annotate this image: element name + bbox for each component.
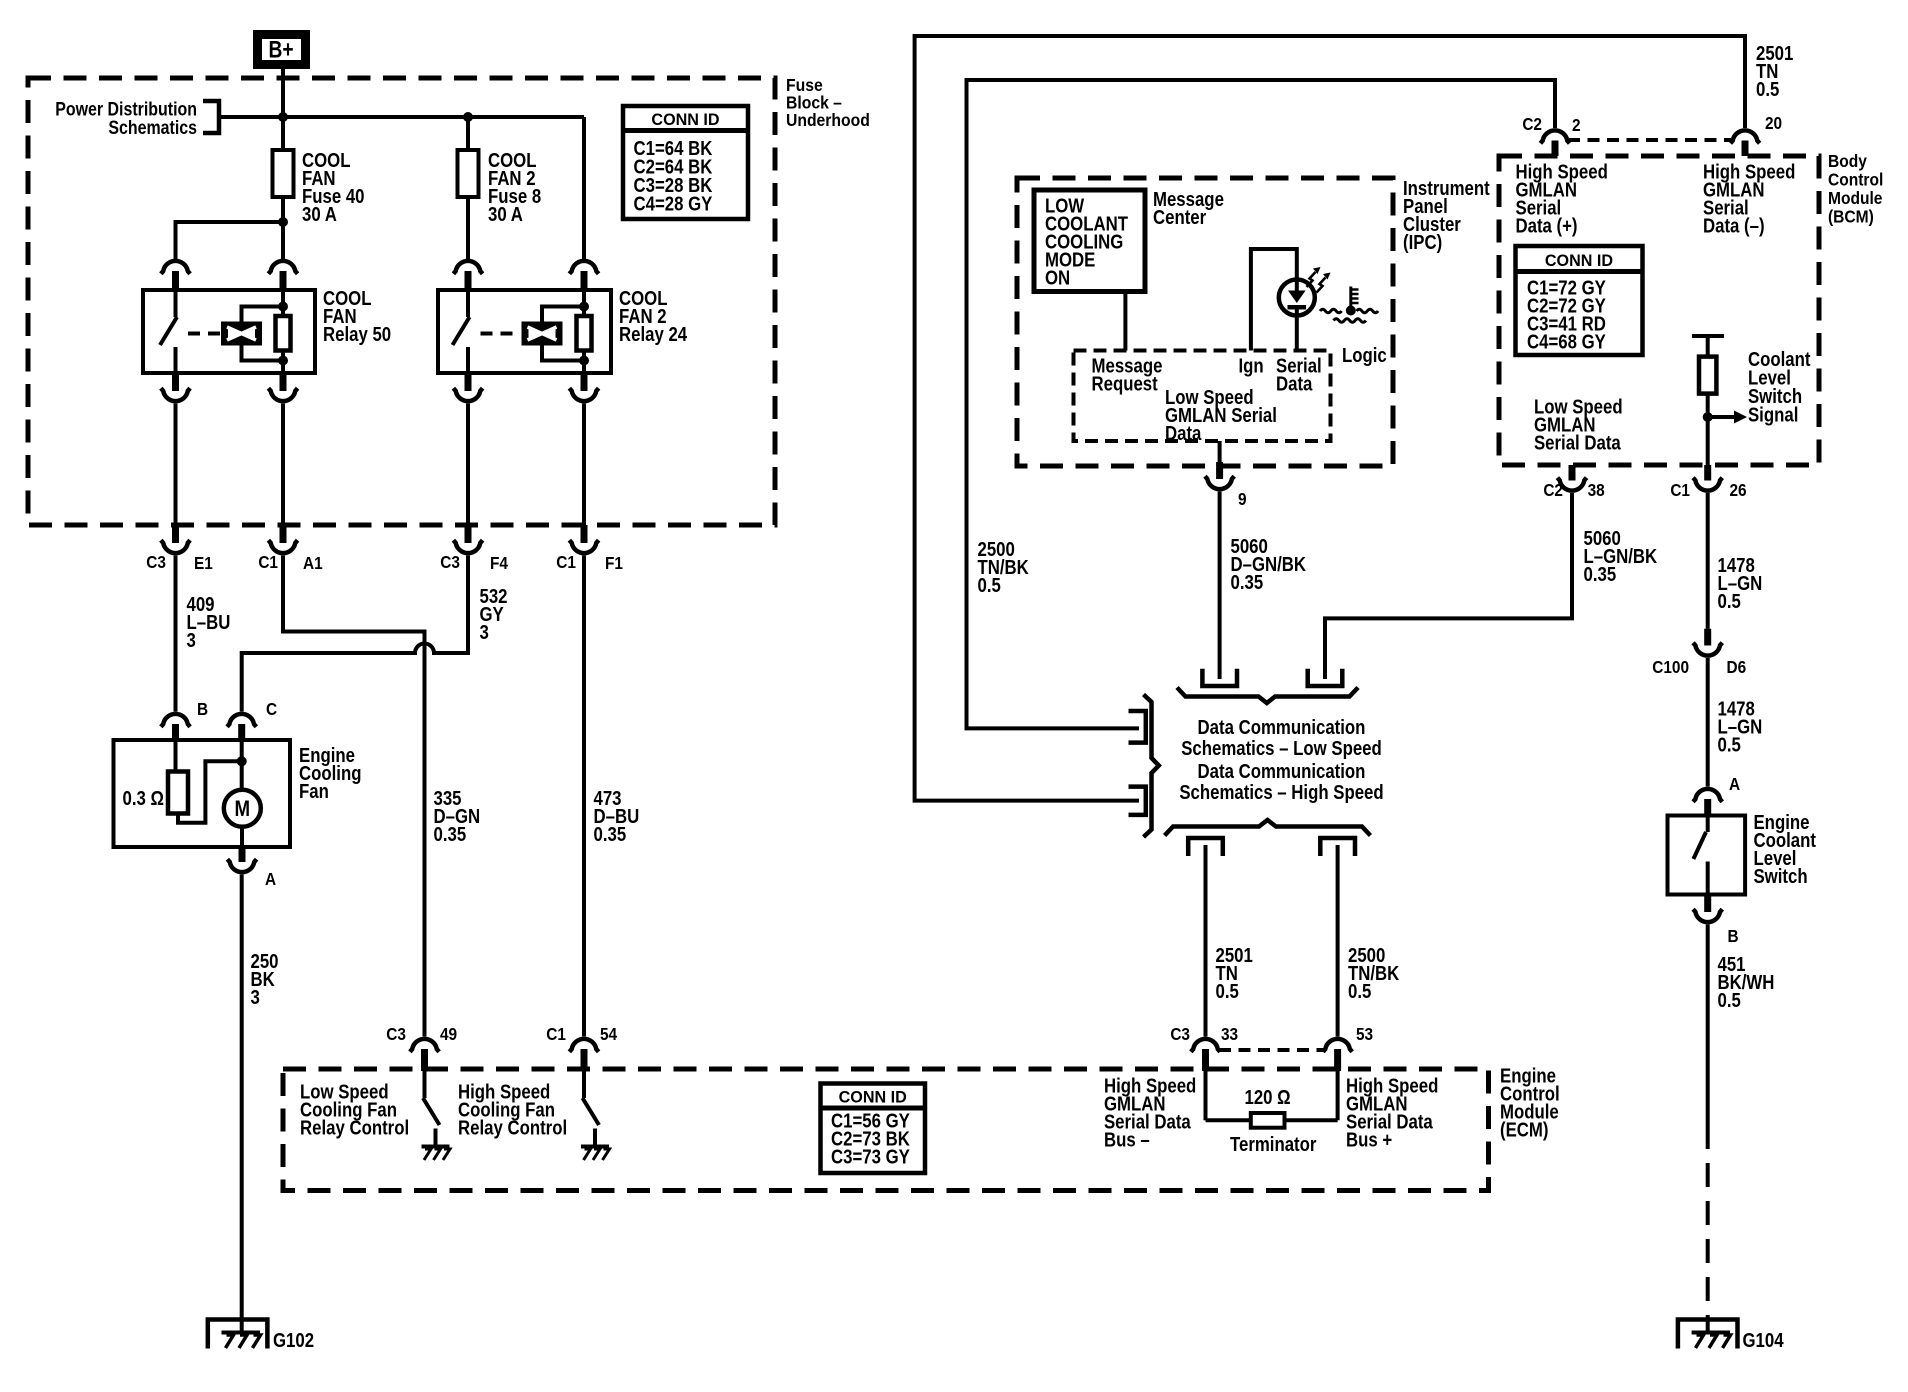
indicator lamp [1279,280,1315,351]
svg-text:0.5: 0.5 [1718,989,1741,1012]
svg-text:33: 33 [1221,1025,1238,1044]
svg-text:Data: Data [1276,372,1313,395]
wire power distribution to bus [219,115,283,119]
svg-text:0.5: 0.5 [1756,78,1779,101]
svg-text:E1: E1 [194,554,213,573]
label Fuse Block Underhood [786,75,870,130]
IPC dashed box [1017,178,1393,466]
label low speed gmlan serial data BCM [1534,395,1623,454]
relay 50 top connectors [161,261,298,290]
svg-text:C3: C3 [1170,1025,1190,1044]
svg-text:C: C [266,700,277,719]
svg-text:Bus +: Bus + [1346,1128,1392,1151]
svg-text:Module: Module [1828,188,1882,208]
label engine coolant level switch [1754,811,1816,888]
svg-text:B+: B+ [268,35,293,63]
relay COOL FAN 2 Relay 24 [438,197,688,401]
svg-text:Underhood: Underhood [786,110,870,130]
wire bus down to fuse 8 [466,117,470,152]
wire 2501 TN 0.5 to ECM 33 [1206,845,1253,1037]
label Body Control Module BCM [1828,151,1883,227]
svg-text:CONN ID: CONN ID [1545,251,1613,270]
wire bus down to relay 24 coil pin [582,117,586,259]
svg-text:3: 3 [186,629,195,652]
svg-text:Switch: Switch [1754,865,1808,888]
label data communication schematics high speed [1179,760,1383,804]
ground G104 [1678,1320,1784,1352]
wire 250 BK 3 to ground [242,875,279,1333]
label high speed gmlan serial data bus plus [1346,1074,1438,1151]
svg-text:C4=68 GY: C4=68 GY [1527,330,1606,353]
engine coolant level switch box [1668,816,1746,895]
connector IPC pin 9 [1205,441,1247,509]
wire 5060 L-GN/BK 0.35 from 38 to bus [1325,493,1658,679]
label coolant level switch signal [1748,348,1810,426]
svg-text:Fan: Fan [299,780,329,803]
low speed relay control driver [300,1071,440,1146]
svg-text:0.35: 0.35 [1231,571,1264,594]
wire 409 L-BU 3 [176,556,231,712]
svg-text:C3: C3 [440,553,460,572]
svg-text:ON: ON [1045,266,1070,289]
svg-text:Serial Data: Serial Data [1534,431,1621,454]
wire Ign loop [1251,249,1297,351]
svg-text:F4: F4 [490,554,509,573]
left bus plugs and brace [1129,695,1159,838]
svg-text:0.5: 0.5 [1718,590,1741,613]
svg-text:Data (–): Data (–) [1703,214,1765,237]
svg-text:C100: C100 [1652,658,1689,677]
svg-text:Schematics – High Speed: Schematics – High Speed [1179,781,1383,804]
wire dashed to G104 [1706,1149,1710,1331]
connector 53 [1323,1025,1373,1071]
svg-text:Bus –: Bus – [1104,1128,1150,1151]
wire relay 24 coil out to F1 [582,404,586,526]
connector fan pin C [227,700,277,741]
svg-text:0.35: 0.35 [594,823,627,846]
wire resistor to motor feed [178,761,242,823]
svg-text:F1: F1 [605,554,623,573]
fuse block dashed box [28,78,775,525]
wire relay 50 switch out to E1 [174,404,178,526]
node junction dot fan internal [237,756,247,766]
svg-text:54: 54 [600,1025,618,1044]
svg-text:B: B [1728,927,1739,946]
connector C1 F1 [556,525,623,573]
wire 5060 D-GN/BK 0.35 [1220,492,1307,680]
BCM dashed box [1499,156,1819,465]
svg-text:D6: D6 [1726,658,1746,677]
lamp light arrows [1307,267,1331,293]
high speed relay control driver [458,1071,599,1146]
svg-text:0.35: 0.35 [1584,563,1617,586]
svg-text:(IPC): (IPC) [1403,231,1442,254]
wire fuse 40 to relay 50 [281,197,285,259]
wire 473 D-BU 0.35 from F1 to ECM 54 [584,556,639,1037]
svg-text:A1: A1 [303,554,323,573]
data communication bus high speed plugs [1165,820,1371,856]
dashed connector face BCM [1568,138,1732,142]
svg-text:A: A [1729,775,1740,794]
svg-text:Relay Control: Relay Control [458,1116,567,1139]
wire 451 BK/WH 0.5 [1708,925,1775,1150]
wire B+ down to fuse 40 [281,69,285,152]
wire 2501 TN 0.5 top run [915,36,1794,801]
ground internal ECM low speed [422,1147,451,1161]
svg-text:Request: Request [1092,372,1158,395]
svg-text:(ECM): (ECM) [1500,1118,1548,1141]
svg-text:38: 38 [1588,481,1605,500]
svg-text:C2: C2 [1522,115,1542,134]
svg-text:C3: C3 [386,1025,406,1044]
battery feed B+ [258,35,306,65]
wire relay 50 coil out to A1 [281,404,285,526]
svg-text:0.5: 0.5 [1215,980,1238,1003]
svg-text:Control: Control [1828,170,1883,190]
connector C3 33 [1170,1025,1238,1071]
svg-text:0.3 Ω: 0.3 Ω [123,787,165,810]
svg-text:CONN ID: CONN ID [651,110,719,129]
svg-text:C3=73 GY: C3=73 GY [831,1145,910,1168]
svg-text:0.5: 0.5 [1718,733,1741,756]
wire 532 GY 3 from F4 to fan C with hop [242,556,508,712]
svg-text:C2: C2 [1543,481,1563,500]
conn id table BCM [1516,246,1643,355]
svg-text:2: 2 [1572,116,1581,135]
svg-text:Ign: Ign [1238,354,1263,377]
connector C3 49 [386,1025,457,1071]
wire message center to logic [1123,292,1127,351]
wire 1478 L-GN 0.5 lower [1708,658,1763,787]
svg-text:49: 49 [440,1025,457,1044]
conn id table ECM [821,1084,926,1174]
svg-text:C1: C1 [556,553,576,572]
ground G102 [208,1320,314,1352]
svg-text:0.35: 0.35 [434,823,467,846]
svg-text:Data Communication: Data Communication [1198,716,1366,739]
logic dashed box [1074,351,1331,442]
node junction dot fuse 8 tap [463,112,473,122]
fuse COOL FAN 2 Fuse 8 30 A [458,149,542,226]
wire 2500 TN/BK 0.5 to ECM 53 [1338,845,1400,1037]
dashed connector face ECM [1219,1048,1324,1052]
svg-text:9: 9 [1238,490,1247,509]
label high speed gmlan serial data bus minus [1104,1074,1196,1151]
label high speed gmlan serial data plus [1516,160,1608,237]
ECM dashed box [283,1069,1489,1191]
node junction dot relay 50 branch [278,217,288,227]
svg-text:Relay 50: Relay 50 [323,323,391,346]
svg-text:Schematics: Schematics [108,117,197,139]
connector C1 54 [546,1025,618,1071]
connector 20 [1730,114,1782,156]
ground internal ECM high speed [581,1147,610,1161]
svg-text:Relay 24: Relay 24 [619,323,688,346]
svg-text:30 A: 30 A [488,203,523,226]
wire 1478 L-GN 0.5 upper [1708,493,1763,629]
svg-text:53: 53 [1356,1025,1373,1044]
svg-text:Center: Center [1153,206,1206,229]
wire 2500 TN/BK 0.5 run to C2 2 [967,80,1556,728]
connector C1 26 [1670,465,1746,500]
logic labels [1092,354,1322,444]
label Engine Control Module ECM [1500,1064,1560,1141]
relay COOL FAN Relay 50 [143,287,391,373]
svg-text:Data Communication: Data Communication [1198,760,1366,783]
data communication bus low speed plugs [1177,669,1358,703]
svg-text:Data (+): Data (+) [1516,214,1578,237]
wire branch to relay 50 switch pin [176,222,284,259]
relay 50 bottom connectors [161,373,298,401]
svg-text:G102: G102 [273,1329,314,1352]
svg-text:0.5: 0.5 [978,574,1001,597]
connector C3 E1 [146,525,213,573]
connector C100 D6 [1652,629,1746,678]
resistor 0.3 ohm [123,740,188,814]
svg-text:G104: G104 [1743,1329,1785,1352]
svg-text:30 A: 30 A [302,203,337,226]
svg-text:3: 3 [250,986,259,1009]
svg-text:20: 20 [1765,114,1782,133]
svg-text:0.5: 0.5 [1348,980,1371,1003]
coolant level switch signal internal [1692,336,1747,465]
svg-text:120 Ω: 120 Ω [1245,1086,1291,1109]
message center box LOW COOLANT COOLING MODE ON [1034,190,1145,292]
motor M engine cooling fan [224,740,261,847]
label data communication schematics low speed [1181,716,1382,760]
svg-text:Logic: Logic [1342,344,1387,367]
low coolant thermometer icon [1320,287,1378,323]
svg-text:C1: C1 [258,553,278,572]
wire relay 24 switch out to F4 [466,404,470,526]
node junction dot B+ bus [278,112,288,122]
svg-text:B: B [197,700,208,719]
label Message Center [1153,188,1224,229]
wire bus to fuse 8 and relay 24 [283,115,584,119]
conn id table fuse block [623,106,748,219]
svg-text:M: M [235,798,251,822]
connector switch pin A [1693,775,1740,816]
engine cooling fan box [114,740,362,847]
connector switch pin B [1693,895,1739,947]
connector fan pin A [227,847,276,889]
fuse COOL FAN Fuse 40 30 A [273,149,365,226]
connector C2 38 [1543,465,1604,500]
svg-text:3: 3 [480,621,489,644]
svg-text:Terminator: Terminator [1230,1133,1316,1156]
svg-text:Data: Data [1165,422,1202,445]
terminator 120 ohm [1206,1071,1338,1155]
label Instrument Panel Cluster IPC [1403,177,1490,254]
svg-text:26: 26 [1730,481,1747,500]
svg-text:C1: C1 [546,1025,566,1044]
svg-text:Schematics – Low Speed: Schematics – Low Speed [1181,737,1382,760]
svg-text:CONN ID: CONN ID [839,1087,907,1106]
connector fan pin B [161,700,208,741]
svg-text:A: A [265,870,276,889]
node Power Distribution Schematics [55,98,219,138]
svg-text:Relay Control: Relay Control [300,1116,409,1139]
svg-text:C4=28 GY: C4=28 GY [634,192,713,215]
svg-text:C1: C1 [1670,481,1690,500]
svg-text:C3: C3 [146,553,166,572]
svg-text:Body: Body [1828,151,1868,171]
wire 335 D-GN 0.35 from A1 to ECM 49 [283,556,480,1037]
svg-text:(BCM): (BCM) [1828,207,1874,227]
connector C3 F4 [440,525,508,573]
label high speed gmlan serial data minus [1703,160,1795,237]
svg-text:Signal: Signal [1748,403,1798,426]
connector C1 A1 [258,525,322,573]
connector C2 2 [1522,115,1580,156]
